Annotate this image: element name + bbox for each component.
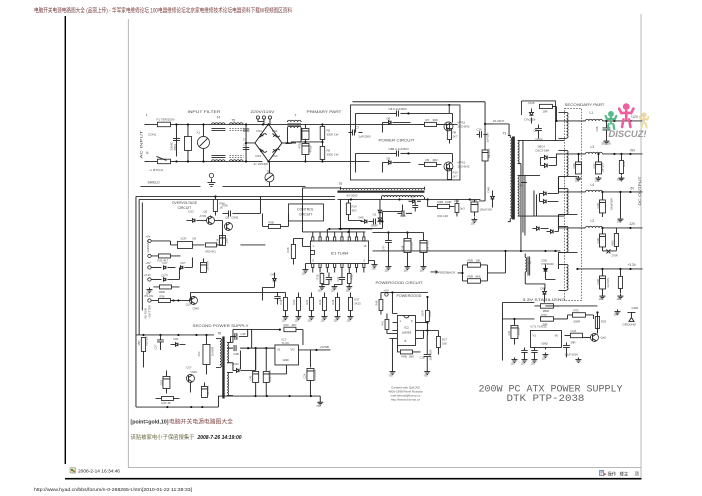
- wire mid link verticals: [262, 213, 288, 300]
- strip winding w4: [566, 226, 568, 252]
- powergood grounds: [389, 369, 395, 374]
- 3.3V block grounds: [511, 357, 517, 362]
- bridge diode DS1: [259, 133, 266, 137]
- svg-text:R7: R7: [425, 118, 429, 122]
- C30 connect wires: [165, 370, 167, 393]
- svg-text:2200: 2200: [160, 379, 163, 385]
- svg-text:N: N: [146, 151, 149, 155]
- svg-text:C10: C10: [330, 276, 333, 281]
- svg-text:PRIMARY PART: PRIMARY PART: [306, 110, 342, 114]
- left table border vertical line: [65, 16, 66, 464]
- svg-text:39R: 39R: [570, 340, 575, 344]
- capacitor C51 mid: [420, 240, 427, 252]
- C27 ground: [575, 176, 581, 181]
- svg-text:100R: 100R: [421, 310, 424, 316]
- svg-text:CONTROL: CONTROL: [297, 207, 314, 211]
- svg-text:R6A: R6A: [610, 240, 614, 245]
- resistor R30 100R: [159, 285, 171, 289]
- voltage selector terminals: [256, 116, 259, 119]
- svg-text:100: 100: [419, 269, 424, 272]
- svg-text:C14: C14: [216, 238, 219, 243]
- svg-text:DS2: DS2: [272, 129, 278, 133]
- T2 bottom bus: [337, 198, 480, 200]
- wire IC1 to powergood link: [381, 292, 428, 313]
- svg-text:D8: D8: [386, 116, 390, 120]
- choke T4 core: [211, 128, 225, 157]
- svg-text:10uF/100V: 10uF/100V: [564, 352, 578, 356]
- svg-text:C945: C945: [192, 306, 199, 310]
- svg-text:顶: 顶: [635, 471, 640, 477]
- svg-text:1000uF: 1000uF: [517, 326, 520, 335]
- IC1 left edge notch: [310, 250, 314, 254]
- svg-text:1000uF: 1000uF: [409, 241, 413, 250]
- IC2 left pin wires: [389, 322, 397, 338]
- svg-text:R5B: R5B: [467, 258, 473, 262]
- svg-text:100: 100: [317, 289, 322, 292]
- T3 secondary center gnd: [521, 181, 527, 183]
- svg-text:100: 100: [530, 362, 535, 365]
- svg-text:电脑开关电源电路图大全 (品丽上传) - 华军家电维修论坛: 电脑开关电源电路图大全 (品丽上传) - 华军家电维修论坛 100电器维修论坛北…: [34, 7, 292, 15]
- rectifier sub-box RU5/D7: [521, 101, 555, 141]
- svg-text:4x 1N5406: 4x 1N5406: [253, 162, 268, 166]
- svg-text:D46: D46: [400, 214, 406, 218]
- resistor R32 4K7: [158, 254, 170, 258]
- svg-text:POWERGOOD: POWERGOOD: [396, 294, 422, 298]
- svg-text:R5B: R5B: [622, 161, 626, 166]
- resistor R7: [424, 122, 436, 126]
- IC1 gnd left: [302, 267, 308, 272]
- wire bridge left vertex link: [246, 124, 255, 161]
- transformer T3 secondary winding lower: [518, 175, 519, 216]
- resistor row R22: [322, 297, 326, 310]
- svg-text:10K: 10K: [442, 341, 447, 345]
- wire -12V rail: [602, 227, 642, 229]
- svg-text:4u7/10V: 4u7/10V: [606, 278, 610, 288]
- svg-text:100: 100: [320, 319, 325, 322]
- svg-text:R20: R20: [292, 299, 296, 304]
- standby transformer L6 winding: [525, 257, 526, 271]
- capacitor C13: [202, 258, 204, 262]
- svg-text:C26: C26: [595, 126, 599, 131]
- wire bridge right vertex link: [282, 142, 296, 144]
- svg-text:RU5: RU5: [528, 101, 534, 105]
- wire -12V tap: [558, 214, 577, 228]
- svg-text:-5V: -5V: [629, 186, 635, 190]
- capacitor D1A filter: [412, 205, 418, 207]
- right table border gray vertical line: [640, 14, 643, 478]
- capacitor C15 mid link: [276, 292, 278, 296]
- svg-text:D30: D30: [233, 362, 239, 366]
- svg-text:100: 100: [616, 219, 621, 223]
- wire mid bus y250 right part: [505, 250, 560, 252]
- svg-text:SECOND POWER SUPPLY: SECOND POWER SUPPLY: [192, 324, 249, 328]
- svg-text:3.3V STABILIZING: 3.3V STABILIZING: [522, 298, 566, 302]
- secondary dashed strip: [564, 108, 581, 300]
- bridge diode DS3: [259, 148, 266, 152]
- svg-text:+5V STOP: +5V STOP: [147, 305, 151, 319]
- svg-text:D2??: D2??: [161, 273, 168, 277]
- transformer T3 core bar: [512, 136, 515, 219]
- wire control mesh: [338, 204, 402, 228]
- svg-text:5K15: 5K15: [354, 301, 361, 305]
- svg-text:D2?: D2?: [180, 261, 185, 265]
- T3 secondary vertical drop 1: [522, 140, 524, 232]
- resistor RT3 39R: [540, 317, 553, 322]
- choke T5 bottom winding: [229, 160, 243, 162]
- svg-text:DISCUZ!: DISCUZ!: [608, 129, 646, 139]
- svg-text:C945: C945: [231, 215, 238, 219]
- svg-text:100: 100: [345, 289, 350, 292]
- svg-text:PXPR040: PXPR040: [541, 262, 554, 266]
- svg-text:13-0098: 13-0098: [210, 346, 214, 356]
- upper cell wires: [355, 113, 452, 132]
- svg-text:D9: D9: [192, 236, 196, 240]
- svg-text:3K2: 3K2: [351, 208, 356, 212]
- capacitor C35: [159, 335, 161, 340]
- resistor R58 100R: [619, 160, 623, 173]
- svg-text:4R7: 4R7: [291, 323, 297, 327]
- svg-text:2SC: 2SC: [197, 351, 201, 356]
- 3.3V block wires: [502, 302, 534, 360]
- svg-text:1uF/50V: 1uF/50V: [206, 261, 209, 271]
- svg-text:R16: R16: [286, 247, 290, 252]
- resistor R9: [424, 162, 436, 166]
- diode D8: [388, 121, 391, 125]
- svg-text:D44: D44: [270, 272, 275, 276]
- bridge rectifier diamond: [255, 124, 282, 162]
- resistor R16 left of IC1: [291, 244, 295, 258]
- svg-text:100: 100: [307, 319, 312, 322]
- svg-text:C4?: C4?: [381, 245, 385, 250]
- svg-text:IC?1 TL431C: IC?1 TL431C: [530, 324, 547, 328]
- IC1 pin stubs top: [312, 237, 314, 241]
- svg-text:TL-06: TL-06: [281, 341, 289, 345]
- svg-text:100: 100: [598, 297, 603, 301]
- svg-text:~1 MTCH1: ~1 MTCH1: [148, 168, 163, 172]
- IC3 input wire: [274, 347, 276, 349]
- bulk capacitor C5: [302, 128, 309, 139]
- standby transformer L6 core: [528, 256, 530, 275]
- svg-text:+12V: +12V: [630, 115, 638, 119]
- wire thermistor to bulk caps: [269, 182, 305, 187]
- svg-text:DC OUTPUT: DC OUTPUT: [638, 176, 642, 205]
- second supply bottom bus: [136, 396, 320, 407]
- transformer T3 primary winding: [510, 137, 511, 218]
- inductor L1: [577, 120, 585, 122]
- svg-text:+5VSB: +5VSB: [319, 345, 328, 349]
- capacitor CX2 box: [184, 136, 191, 150]
- bottom-right action icon: [600, 471, 604, 476]
- resistor R23 4R7: [284, 327, 296, 332]
- resistor R3V: [618, 276, 622, 288]
- svg-text:RT2: RT2: [573, 308, 579, 312]
- resistor R5C 8K8 feedback: [467, 279, 480, 284]
- svg-text:700: 700: [388, 374, 393, 377]
- lower cell wires: [355, 153, 452, 172]
- wire bridge bottom node: [267, 160, 269, 162]
- svg-text:X1: X1: [196, 130, 200, 134]
- svg-text:T4: T4: [216, 115, 220, 119]
- svg-text:D4B: D4B: [233, 352, 238, 356]
- svg-text:SECONDARY PART: SECONDARY PART: [564, 103, 605, 107]
- capacitor C41: [203, 382, 205, 386]
- capacitor C47 mid: [385, 240, 392, 242]
- svg-text:FEEDBACK: FEEDBACK: [438, 270, 455, 274]
- svg-text:R21: R21: [305, 299, 309, 304]
- resistor R14 3K2: [346, 203, 350, 215]
- svg-text:600R: 600R: [573, 319, 580, 323]
- resistor R45 18M below IC2: [400, 350, 412, 354]
- wire AC neutral rail: [149, 160, 262, 162]
- resistor R17 under IC1: [347, 273, 351, 283]
- svg-text:100: 100: [574, 178, 579, 182]
- series cap D32: [234, 345, 236, 351]
- svg-text:D31: D31: [173, 337, 178, 341]
- svg-text:R24: R24: [331, 299, 335, 304]
- wire second supply to T6 top: [136, 334, 144, 336]
- svg-text:100: 100: [371, 267, 376, 270]
- wire AC live rail: [149, 123, 430, 125]
- resistor R43 powergood: [385, 319, 389, 329]
- svg-text:D4B: D4B: [486, 187, 490, 193]
- svg-text:C1?: C1?: [278, 295, 281, 300]
- wire L6 to 3.3V strip: [525, 276, 545, 288]
- IC3 gnd pin wire: [268, 365, 286, 374]
- svg-text:T3: T3: [502, 131, 506, 135]
- capacitor C2A 47uF: [309, 350, 311, 368]
- svg-text:T9: T9: [338, 182, 342, 186]
- IC1 pin stubs bottom: [312, 263, 314, 267]
- svg-text:该贴被家电小子保函搜集于: 该贴被家电小子保函搜集于: [131, 433, 196, 441]
- svg-text:T5: T5: [231, 118, 235, 122]
- inductor L3: [577, 153, 585, 155]
- capacitor C34b: [533, 347, 535, 350]
- capacitor C8: [390, 112, 396, 114]
- svg-text:DSC3-SB4: DSC3-SB4: [535, 148, 549, 152]
- svg-text:68K/1W: 68K/1W: [145, 336, 148, 346]
- wire bulk caps bottom rail: [269, 160, 369, 162]
- capacitor C14: [221, 231, 223, 235]
- svg-text:CIRCUIT: CIRCUIT: [299, 212, 313, 216]
- svg-text:[point=gold,10]: [point=gold,10]: [131, 420, 169, 426]
- svg-text:V0: V0: [554, 333, 558, 337]
- page bottom black horizontal border: [65, 478, 642, 480]
- IC2 right pin wires: [415, 322, 427, 338]
- coupling capacitor C16: [485, 123, 493, 125]
- svg-text:M60: M60: [137, 340, 141, 346]
- svg-text:700: 700: [519, 184, 524, 187]
- capacitor 10uF/100V: [565, 342, 567, 345]
- svg-text:L1: L1: [589, 111, 593, 115]
- svg-text:POWERGOOD CIRCUIT: POWERGOOD CIRCUIT: [375, 281, 422, 285]
- wire +3.3V rail: [577, 268, 642, 270]
- svg-text:-12V: -12V: [628, 222, 636, 226]
- diode D2B pair: [544, 268, 548, 271]
- wire overvoltage to IC1 area: [222, 196, 265, 245]
- timestamp row icon: [70, 468, 76, 473]
- resistor row R20: [296, 297, 300, 310]
- resistor R8: [447, 128, 451, 139]
- svg-text:3uF/35V: 3uF/35V: [487, 148, 491, 158]
- svg-text:100: 100: [594, 178, 599, 182]
- svg-text:220V/115V: 220V/115V: [250, 110, 275, 114]
- svg-text:R5B: R5B: [467, 274, 473, 278]
- bleeder resistor R5: [320, 126, 325, 139]
- svg-text:R36: R36: [159, 294, 164, 298]
- wire bridge top feed: [267, 123, 269, 125]
- svg-text:Qs5: Qs5: [600, 335, 606, 339]
- wire 5VSB feedback to T6: [239, 350, 241, 369]
- svg-text:B: B: [404, 339, 406, 343]
- wire C8 row drop: [448, 105, 450, 114]
- svg-text:CQ4: CQ4: [570, 329, 576, 333]
- C2B ground: [471, 217, 477, 222]
- bottom bus ground: [319, 396, 321, 400]
- wire +3.3V tap: [558, 252, 577, 269]
- resistor R33: [205, 243, 216, 247]
- svg-text:OVERVOLTAGE: OVERVOLTAGE: [172, 201, 198, 205]
- svg-text:22uF: 22uF: [225, 237, 228, 243]
- svg-text:GROUND: GROUND: [622, 322, 636, 326]
- svg-text:IC2: IC2: [404, 325, 409, 329]
- svg-text:4uF/50V: 4uF/50V: [207, 386, 210, 396]
- inductor L4: [577, 191, 585, 193]
- svg-text:T: T: [294, 113, 296, 117]
- wire schottky to L3: [556, 154, 577, 166]
- choke T4 top winding: [211, 123, 225, 125]
- svg-text:电脑开关电源电路图大全: 电脑开关电源电路图大全: [169, 418, 234, 426]
- svg-text:L3: L3: [590, 145, 594, 149]
- resistor row R19: [283, 297, 287, 310]
- svg-text:555/100: 555/100: [601, 141, 611, 145]
- capacitor CX1: [175, 124, 177, 156]
- svg-text:R1C: R1C: [350, 274, 353, 279]
- svg-text:SCR: SCR: [180, 236, 186, 240]
- svg-text:100: 100: [616, 297, 621, 301]
- svg-text:V1: V1: [532, 333, 536, 337]
- wire rectifier sub-box to L1: [556, 106, 577, 121]
- svg-text:R2B: R2B: [428, 311, 432, 316]
- svg-text:+5V: +5V: [629, 148, 636, 152]
- IC3 regulator body: [275, 345, 299, 365]
- svg-text:100uF/16V: 100uF/16V: [479, 207, 492, 211]
- svg-text:RT3: RT3: [541, 313, 547, 317]
- svg-text:DTK PTP-2038: DTK PTP-2038: [506, 393, 584, 404]
- transformer T6 primary winding: [220, 338, 221, 367]
- IC3 output wire +5VSB: [298, 349, 330, 351]
- T3 secondary vertical drop 2: [520, 164, 522, 251]
- wire half-bridge output riser: [484, 102, 486, 124]
- svg-text:8K8: 8K8: [475, 274, 480, 278]
- capacitor C8B: [390, 152, 396, 154]
- resistor R5B 10K feedback: [467, 263, 480, 268]
- svg-text:D7x2-D6: D7x2-D6: [524, 117, 535, 121]
- resistor R62: [161, 396, 173, 400]
- bridge diode DS2: [272, 133, 279, 137]
- svg-text:D3C 4R: D3C 4R: [161, 401, 170, 405]
- svg-text:100: 100: [301, 271, 306, 275]
- overvoltage inner box edge 2: [139, 199, 335, 335]
- wire coupling to T3: [493, 124, 509, 136]
- capacitor C40: [255, 348, 257, 370]
- svg-text:R22: R22: [318, 299, 322, 304]
- switch transistor Q3 13-0098: [203, 344, 210, 364]
- svg-text:C945: C945: [190, 370, 197, 374]
- inner table border gray vertical line: [127, 19, 130, 468]
- resistor R6A 270R: [614, 233, 618, 246]
- svg-text:D45: D45: [358, 215, 364, 219]
- varistor X1: [197, 136, 209, 148]
- svg-text:INPUT FILTER: INPUT FILTER: [187, 110, 221, 114]
- TL431 block: [530, 330, 561, 347]
- svg-text:+3.3V: +3.3V: [627, 263, 636, 267]
- svg-text:2008-2-14 16:34:46: 2008-2-14 16:34:46: [78, 469, 121, 474]
- grounds under resistor row: [282, 314, 288, 319]
- resistor R2B right of IC2: [426, 310, 430, 321]
- svg-text:A733: A733: [199, 214, 206, 218]
- wire selector tap to cap midpoint: [262, 124, 306, 143]
- mid caps top bus: [372, 232, 423, 234]
- transformer T6 secondary winding: [227, 342, 228, 362]
- resistor row R25 + label: [348, 297, 352, 310]
- svg-text:R17: R17: [354, 297, 359, 301]
- capacitor C32 1000uF: [511, 325, 518, 338]
- svg-text:2008-7-26 14:19:00: 2008-7-26 14:19:00: [197, 435, 242, 441]
- transformer T6 secondary winding 2: [227, 372, 228, 395]
- svg-text:100: 100: [403, 269, 408, 272]
- svg-text:DS1: DS1: [256, 129, 262, 133]
- choke T4 bottom winding: [211, 160, 225, 162]
- svg-text:SHIELD: SHIELD: [147, 180, 160, 184]
- strip taps: [558, 112, 566, 290]
- svg-text:100: 100: [613, 312, 618, 316]
- svg-text:1uF/250V: 1uF/250V: [358, 134, 371, 138]
- resistor R15 under IC1: [320, 273, 324, 283]
- svg-text:90-0000: 90-0000: [346, 193, 357, 197]
- resistor R380: [540, 304, 553, 309]
- IC1 top bus wire: [302, 229, 372, 232]
- choke T5 top winding: [229, 123, 243, 125]
- svg-text:IC1 TL494: IC1 TL494: [331, 251, 349, 255]
- svg-text:F1 TER/250V: F1 TER/250V: [156, 117, 174, 121]
- capacitor C11 under IC1: [339, 277, 345, 279]
- feedback junction wires: [457, 265, 487, 281]
- svg-text:+5V: +5V: [145, 261, 150, 265]
- wire +5V rail: [602, 153, 642, 155]
- svg-text:DS4: DS4: [272, 154, 278, 158]
- grounds under mid caps: [385, 264, 391, 269]
- discuz logo yellow figure: [640, 113, 649, 128]
- wire PS-ON run: [190, 292, 285, 300]
- svg-text:100: 100: [520, 362, 525, 365]
- svg-text:100: 100: [333, 319, 338, 322]
- svg-text:T6: T6: [217, 331, 221, 335]
- svg-text:C9: C9: [372, 212, 376, 216]
- discuz logo pink figure: [619, 103, 633, 127]
- capacitor CY2: [243, 147, 249, 149]
- svg-text:DS3: DS3: [255, 154, 261, 158]
- wire T3 secondary to output strip: [521, 140, 565, 216]
- svg-text:C11: C11: [337, 276, 340, 281]
- svg-text:R29: R29: [601, 319, 607, 323]
- C3B ground: [599, 294, 605, 299]
- svg-text:330K 1W: 330K 1W: [326, 152, 338, 156]
- svg-text:R4L: R4L: [381, 320, 384, 325]
- svg-text:AC INPUT: AC INPUT: [139, 130, 143, 158]
- powergood IC2 body: [397, 315, 415, 345]
- svg-text:30R: 30R: [432, 118, 437, 122]
- half-bridge lower capacitor C17: [484, 124, 486, 150]
